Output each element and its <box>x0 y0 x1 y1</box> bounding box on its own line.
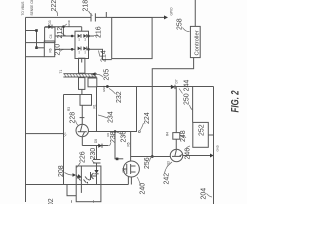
svg-text:GPIO: GPIO <box>170 7 174 15</box>
transformer T1 primary winding <box>79 58 85 73</box>
optocoupler pin marks <box>72 200 94 203</box>
svg-text:202: 202 <box>48 198 55 204</box>
label 230 <box>90 148 97 163</box>
transformer T1 core <box>63 74 96 77</box>
label 236 <box>117 131 128 143</box>
svg-text:SENSE CIRC: SENSE CIRC <box>30 0 34 16</box>
wire gate branch <box>115 132 123 159</box>
label 210 <box>55 44 64 56</box>
svg-text:242: 242 <box>164 173 171 185</box>
label 212 <box>57 27 66 39</box>
svg-text:R4: R4 <box>166 132 170 136</box>
node bridge input dot 1 <box>71 35 74 38</box>
wire bridge to primary <box>81 59 83 63</box>
svg-text:218: 218 <box>83 0 90 12</box>
diode D5 branch <box>82 145 108 147</box>
wire Q1 collector <box>81 105 83 124</box>
wire Q1 emitter <box>81 137 83 146</box>
wire R3 to node wire <box>64 94 81 96</box>
svg-text:236: 236 <box>121 131 128 143</box>
wire bottom GND rail <box>213 87 215 205</box>
svg-text:D3: D3 <box>48 20 52 24</box>
wire GPIO drop <box>26 16 165 18</box>
svg-text:Q1: Q1 <box>63 132 67 136</box>
label 238 <box>109 131 118 145</box>
wire rail to R6 box <box>26 56 45 58</box>
svg-text:226: 226 <box>80 151 87 163</box>
node bridge output dot 1 <box>87 35 90 38</box>
label 228 <box>70 112 79 126</box>
label 218 <box>83 0 93 16</box>
capacitor C1 <box>91 13 95 21</box>
label 232 <box>109 89 123 104</box>
svg-text:234: 234 <box>108 111 115 123</box>
node gate corner dot <box>116 158 119 161</box>
svg-text:208: 208 <box>58 165 65 177</box>
svg-text:FIG. 2: FIG. 2 <box>230 91 242 113</box>
wire bridge to D3 line <box>81 27 83 31</box>
wire gnd node link <box>62 27 64 36</box>
diode D2 <box>78 34 81 38</box>
node GND dot on output rail <box>102 85 109 92</box>
arrow GPIO <box>164 15 168 19</box>
node bridge output dot 2 <box>87 48 90 51</box>
fuse element with end dots <box>35 29 44 49</box>
node GND label <box>64 20 71 26</box>
svg-text:GND: GND <box>67 20 71 26</box>
label 256 <box>144 157 152 169</box>
wire snubber branch 230 <box>96 146 98 185</box>
wire Q2 drive <box>130 132 132 162</box>
svg-text:205: 205 <box>104 69 111 81</box>
transistor Q2 mosfet <box>122 161 140 177</box>
resistor R1 wire <box>96 87 98 132</box>
svg-text:222: 222 <box>51 0 58 12</box>
wire Q3 collector <box>175 87 177 150</box>
svg-text:R1: R1 <box>92 104 96 108</box>
wire long node Y63 <box>63 95 65 185</box>
wire rail stub <box>105 12 107 17</box>
box 252 <box>193 122 209 147</box>
label 205 with arrow <box>92 69 111 81</box>
node GND junction dot <box>62 25 65 28</box>
svg-text:238: 238 <box>110 131 117 143</box>
svg-text:R3: R3 <box>67 107 71 111</box>
capacitor tick near R3 <box>80 117 85 119</box>
svg-text:Q2: Q2 <box>122 168 126 172</box>
wire opto feed <box>67 185 76 196</box>
label 250 244 <box>179 80 193 110</box>
label 208 with arrow <box>58 165 76 177</box>
wire controller net <box>152 58 193 157</box>
svg-text:D5: D5 <box>94 139 98 143</box>
transistor Q1 <box>63 124 89 136</box>
label 234 <box>98 111 115 123</box>
diode D4 <box>83 34 86 38</box>
node base junction dot <box>114 130 117 133</box>
wire bridge output stub <box>89 35 95 37</box>
diode D7 <box>171 79 179 89</box>
svg-text:232: 232 <box>116 91 123 103</box>
diode D3 <box>48 20 52 29</box>
wire Q3 emitter to GND <box>183 155 211 157</box>
label 242 <box>164 162 173 185</box>
optocoupler box 208 <box>76 166 101 202</box>
transistor Q3 <box>167 149 183 165</box>
label 248 <box>180 130 187 142</box>
box B1 <box>112 18 152 59</box>
svg-text:C4: C4 <box>49 34 53 38</box>
label 226 <box>77 151 87 167</box>
svg-text:230: 230 <box>90 148 97 160</box>
arrow emitter GND <box>210 154 214 158</box>
wire rail to fuse element <box>26 30 37 32</box>
svg-text:224: 224 <box>144 112 151 124</box>
svg-text:214: 214 <box>101 50 108 62</box>
wire C4 to bridge <box>55 35 75 37</box>
wire left drop W3 <box>26 184 129 186</box>
wire rail to C4 box <box>26 42 45 44</box>
svg-text:T1: T1 <box>59 70 63 74</box>
wire 252 stub to rail <box>208 134 213 136</box>
label 224 <box>138 112 151 132</box>
wire bridge output to B1 <box>89 49 112 59</box>
transformer T1 aux winding <box>79 78 85 90</box>
wire rail drop W1 <box>26 133 64 135</box>
capacitor C4 box <box>45 27 55 42</box>
label 214 <box>99 50 108 62</box>
wire R6 to bridge <box>55 48 75 50</box>
diode D3b <box>83 47 86 51</box>
label 258 <box>177 18 190 31</box>
node 256 dot <box>151 155 154 158</box>
label 222 <box>51 0 58 16</box>
transformer T1 secondary winding <box>88 78 97 87</box>
svg-text:R6: R6 <box>49 48 53 52</box>
svg-text:250 244: 250 244 <box>184 80 191 105</box>
wire 252 feed <box>192 87 194 123</box>
diode D5 <box>94 139 102 148</box>
node bridge input dot 2 <box>71 48 74 51</box>
diode D1 <box>78 47 81 51</box>
svg-text:D7: D7 <box>175 79 179 83</box>
wire Q1 base line <box>88 87 136 132</box>
svg-text:TO VBUS: TO VBUS <box>21 2 25 16</box>
bridge diode labels <box>79 37 87 53</box>
svg-text:GND: GND <box>102 86 106 92</box>
svg-text:252: 252 <box>199 124 206 136</box>
controller box <box>190 26 200 57</box>
svg-text:R5: R5 <box>127 142 131 146</box>
label 240 <box>137 177 147 195</box>
wire controller top <box>194 0 196 26</box>
resistor R4 box <box>166 132 180 140</box>
label 216 <box>94 26 103 38</box>
diode D3 line <box>45 26 82 28</box>
wire Q2 to node 256 <box>131 156 153 158</box>
svg-text:258: 258 <box>177 18 184 30</box>
optocoupler detector <box>91 172 97 180</box>
wire Q3 base <box>152 156 170 158</box>
wire top rail <box>25 17 27 202</box>
resistor R6 box <box>44 41 54 57</box>
optocoupler LED <box>76 174 90 184</box>
label 246 <box>185 146 192 160</box>
wire aux lead <box>81 89 83 94</box>
bridge rectifier box 216 <box>75 31 89 58</box>
svg-text:GND: GND <box>216 145 220 151</box>
wire secondary to output rail <box>97 86 214 88</box>
capacitor C2 <box>93 160 101 164</box>
diode D6 <box>94 170 98 174</box>
wire Q2 source links <box>128 177 131 185</box>
svg-text:Controller: Controller <box>194 30 200 55</box>
svg-text:246: 246 <box>185 148 192 160</box>
svg-text:228: 228 <box>70 112 77 124</box>
label 204 <box>201 188 213 200</box>
resistor R3 box <box>67 95 92 112</box>
